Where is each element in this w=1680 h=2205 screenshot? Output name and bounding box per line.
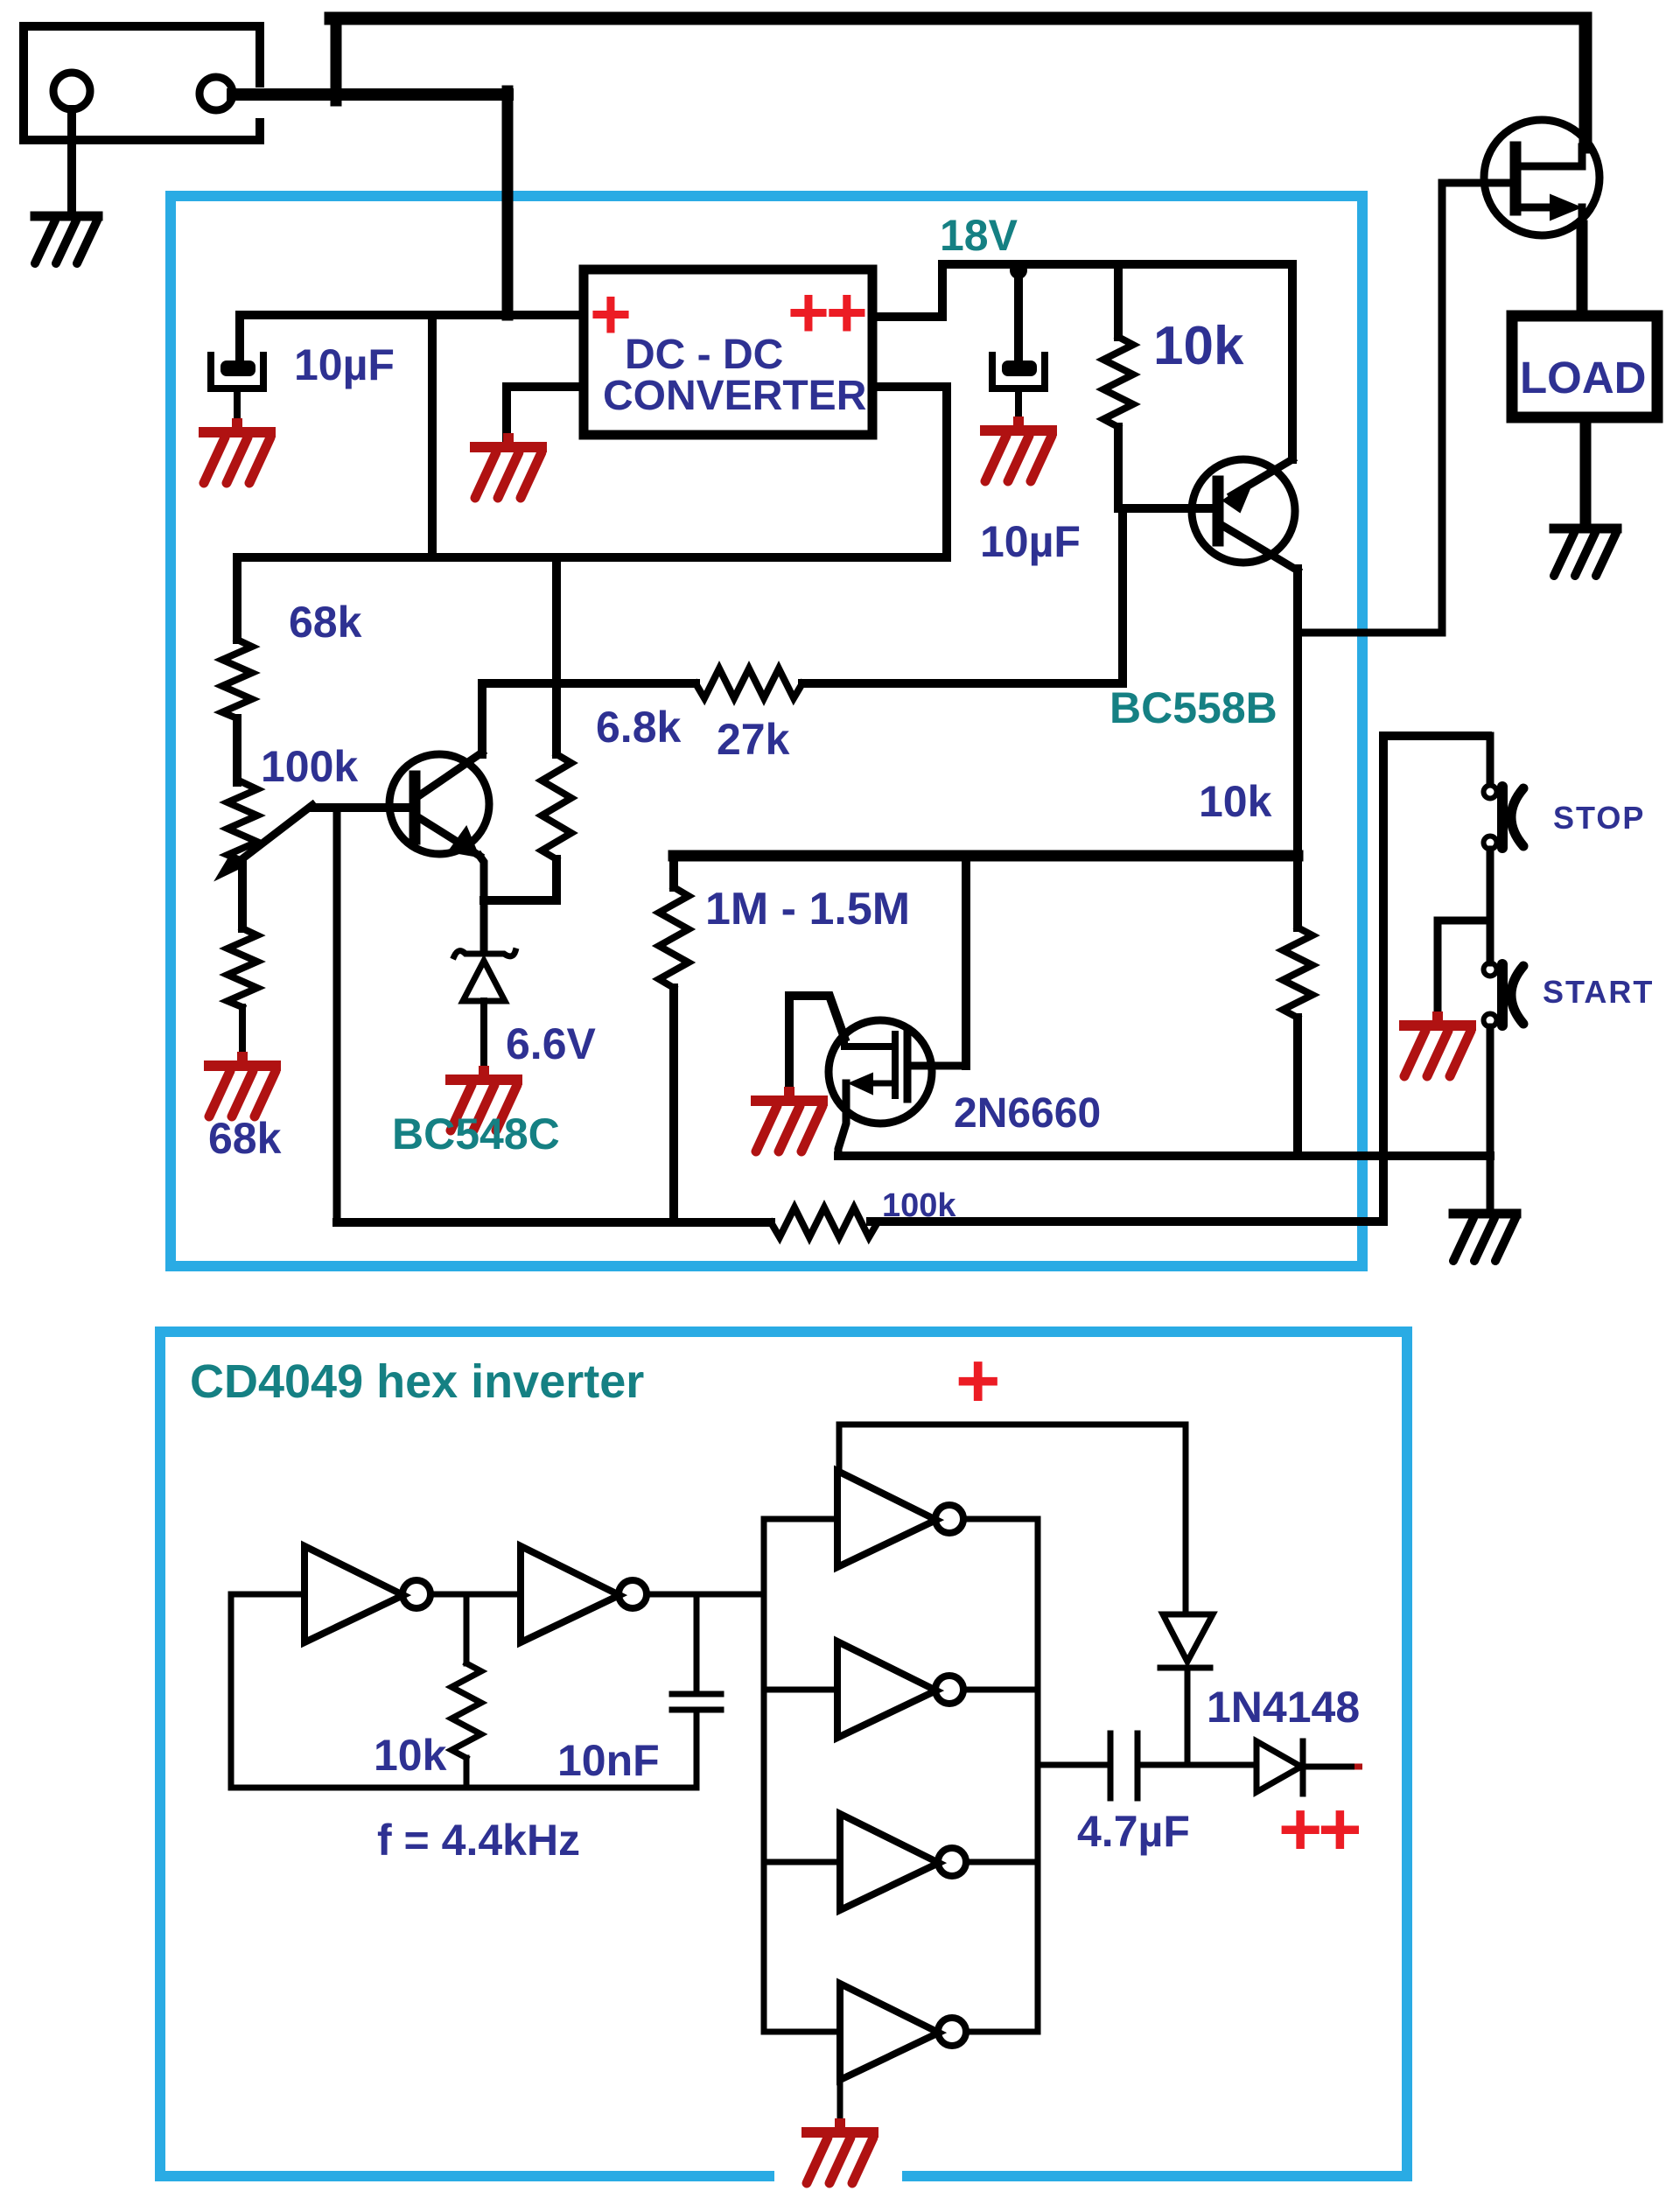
svg-text:18V: 18V [940, 211, 1018, 260]
wire battery plus to node [233, 88, 507, 101]
wire START bottom to ground [1487, 1027, 1494, 1210]
wire pot to 68k lower [238, 861, 247, 928]
capacitor C4 4.7uF [1110, 1733, 1256, 1798]
wire inv4 input stub [764, 1687, 837, 1693]
svg-text:100k: 100k [261, 742, 358, 791]
svg-text:100k: 100k [882, 1187, 956, 1224]
ground LOAD [1554, 528, 1617, 576]
wire base node to bottom rail [333, 808, 341, 1222]
svg-text:10k: 10k [374, 1731, 447, 1780]
ground zener [451, 1066, 517, 1130]
svg-text:++: ++ [787, 273, 865, 353]
wire top bus to drain [331, 18, 342, 101]
svg-text:27k: 27k [717, 715, 790, 764]
LOAD box [1512, 316, 1657, 417]
capacitor C1 10uF [211, 315, 263, 429]
ground STOP branch [1404, 1011, 1471, 1076]
wire Vdd bus [839, 1424, 1186, 1614]
svg-text:BC558B: BC558B [1109, 683, 1277, 732]
wire inv6 out stub [966, 2029, 1038, 2035]
svg-text:CONVERTER: CONVERTER [603, 373, 866, 419]
wire bus to 27k node [552, 557, 561, 683]
transistor Q1 BC548C [389, 752, 489, 857]
wire STOP bottom branch to ground [1438, 920, 1490, 1022]
svg-text:4.7µF: 4.7µF [1077, 1807, 1190, 1856]
wire BC548C base [312, 803, 409, 812]
wire input bus [761, 1519, 767, 2032]
MOSFET Q3 2N6660 [789, 996, 966, 1156]
wire Q1 collector up [478, 683, 486, 754]
wire BC558B base [1118, 504, 1213, 513]
svg-text:68k: 68k [289, 598, 362, 647]
wire output tap [1038, 1762, 1106, 1768]
wire source rail [838, 1151, 1490, 1160]
ground DC-DC [475, 433, 542, 498]
wire battery minus to ground [67, 109, 76, 213]
zener D1 6.6V [454, 951, 515, 1074]
wire collector to gate branch [1298, 629, 1442, 637]
wire Q2 collector down [1293, 569, 1302, 927]
wire inv6 Vss lead [837, 2080, 843, 2129]
svg-text:DC - DC: DC - DC [625, 332, 783, 378]
resistor R1 10k [1103, 264, 1133, 504]
wire DC-DC ground pin [507, 387, 579, 442]
svg-text:6.6V: 6.6V [506, 1019, 597, 1068]
resistor R8 10k right [1283, 927, 1312, 1156]
potentiometer R3 100k [217, 782, 312, 878]
svg-text:68k: 68k [208, 1114, 282, 1163]
resistor R5 27k [696, 668, 802, 698]
svg-text:6.8k: 6.8k [596, 703, 682, 752]
svg-text:f = 4.4kHz: f = 4.4kHz [377, 1816, 580, 1865]
DC-DC converter box U1 [584, 269, 872, 435]
inverter U2E [840, 1814, 966, 1910]
wire 6.8k to emitter [484, 896, 556, 905]
wire DC-DC output to 18V bus [877, 264, 1292, 317]
battery pack B1 [24, 26, 260, 140]
wire osc feedback [231, 1594, 696, 1788]
pushbutton START [1484, 963, 1524, 1027]
ground C2 [985, 416, 1052, 481]
MOSFET M1 pass transistor [1484, 120, 1599, 235]
capacitor C2 10uF [992, 270, 1045, 427]
wire M1 gate [1442, 183, 1510, 633]
inverter U2C [837, 1471, 963, 1567]
wire STOP top lead [1487, 736, 1494, 784]
inverter U2B [521, 1546, 647, 1642]
ground Q3 gate [756, 1087, 822, 1151]
resistor R2 68k upper [222, 557, 252, 782]
wire inv5 out stub [966, 1859, 1038, 1865]
wire bottom rail to STOP loop [871, 736, 1487, 1221]
inverter U2F [840, 1984, 966, 2080]
wire DC-DC lower output bus [237, 387, 947, 557]
node 18V junction [1010, 262, 1027, 279]
svg-text:LOAD: LOAD [1520, 353, 1646, 402]
svg-text:1N4148: 1N4148 [1207, 1683, 1360, 1732]
wire 27k to Q2 base node [802, 508, 1123, 683]
diode D2 1N4148 vertical [1160, 1614, 1213, 1765]
wire inv3 input stub [764, 1516, 837, 1522]
svg-text:CD4049 hex inverter: CD4049 hex inverter [190, 1355, 644, 1408]
svg-text:START: START [1543, 974, 1654, 1010]
svg-text:+: + [955, 1337, 1000, 1424]
wire Q3 drain to latch bus [962, 856, 970, 1066]
wire inv1 out to inv2 in [431, 1592, 521, 1598]
svg-text:STOP: STOP [1553, 800, 1645, 836]
ground START [1453, 1214, 1516, 1261]
ground C1 [204, 418, 270, 483]
ground CD4049 [807, 2118, 873, 2183]
wire LOAD to ground [1580, 417, 1592, 525]
wire inv4 out stub [963, 1687, 1038, 1693]
wire 18V to emitter [1288, 264, 1297, 459]
svg-text:10µF: 10µF [294, 340, 395, 389]
transistor Q2 BC558B [1192, 459, 1298, 570]
resistor R9 100k [771, 1207, 878, 1237]
svg-text:10µF: 10µF [980, 517, 1081, 566]
resistor R4 68k lower [227, 928, 257, 1062]
wire 27k rail [482, 679, 696, 688]
inverter U2A [304, 1546, 430, 1642]
wire inv5 input stub [764, 1859, 840, 1865]
capacitor C3 10nF [672, 1594, 721, 1788]
wire latch bus [674, 850, 1298, 862]
wire DC input node [240, 311, 579, 319]
svg-text:10nF: 10nF [557, 1736, 660, 1785]
ground battery [35, 216, 98, 263]
wire inv6 input stub [764, 2029, 840, 2035]
inverter U2D [837, 1641, 963, 1738]
control-circuit box (blue) [171, 196, 1362, 1266]
resistor R6 6.8k [542, 683, 571, 900]
svg-text:++: ++ [1278, 1788, 1359, 1872]
wire M1 source to LOAD [1577, 226, 1588, 311]
resistor R10 10k osc [451, 1594, 481, 1788]
svg-text:1M - 1.5M: 1M - 1.5M [705, 884, 910, 934]
diode D3 1N4148 horizontal [1256, 1741, 1362, 1794]
wire STOP to START [1487, 850, 1494, 962]
ground 68k lower [209, 1052, 276, 1116]
wire Q1 emitter down [479, 856, 484, 951]
svg-text:10k: 10k [1199, 777, 1272, 826]
svg-text:2N6660: 2N6660 [954, 1090, 1101, 1137]
svg-text:BC548C: BC548C [392, 1109, 560, 1158]
svg-text:10k: 10k [1153, 316, 1244, 376]
resistor R7 1M-1.5M [659, 856, 689, 1222]
wire output bus [1035, 1519, 1041, 2032]
wire inv3 out stub [963, 1516, 1038, 1522]
wire node to lower bus [428, 315, 437, 557]
pushbutton STOP [1484, 786, 1524, 850]
wire bottom rail [337, 1218, 771, 1227]
wire inv2 out to input bus [647, 1592, 764, 1598]
CD4049 box (blue) [160, 1332, 1407, 2176]
